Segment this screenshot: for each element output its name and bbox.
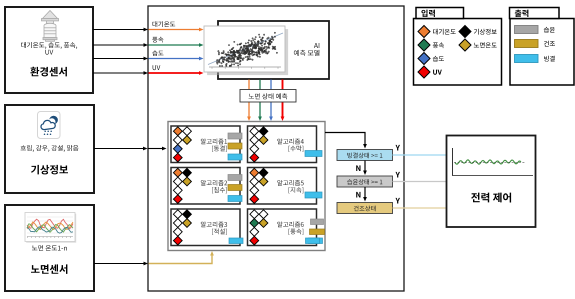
label 기상정보 conditions	[21, 145, 79, 152]
decision box 건조상태	[337, 203, 393, 214]
icon road-sensor temperature chart	[25, 213, 76, 243]
wire Y3 to power control	[393, 207, 448, 209]
wire env-sensor output 3 (습도) black segment	[93, 57, 148, 61]
label 환경센서 sensor list	[21, 42, 77, 55]
legend output item 건조	[515, 40, 556, 48]
wire Y1 to power control	[393, 154, 448, 156]
wire 습도 colored segment into AI model	[149, 57, 204, 61]
label 환경센서 title	[30, 67, 67, 77]
legend item UV	[418, 66, 442, 78]
box 알고리즘3 [적설]	[171, 209, 243, 246]
legend output title tab	[510, 8, 560, 19]
wire algorithms to decision chain	[325, 133, 367, 149]
wire N1	[363, 161, 367, 176]
label N2	[356, 192, 360, 198]
label AI model	[294, 43, 320, 56]
wire env-sensor output 2 (풍속) black segment	[93, 43, 148, 47]
wire road-sensor gold elbow into algorithms	[149, 251, 214, 264]
wire weather-info to algorithm container	[94, 147, 167, 151]
decision box 습윤상태 >= 1	[337, 176, 393, 187]
box road state prediction 노면상태예측	[240, 90, 296, 103]
label 노면센서 title	[31, 264, 67, 274]
label Y3	[396, 198, 401, 204]
wire AI output 대기온도 descending	[247, 80, 251, 122]
label input 습도	[152, 50, 163, 56]
wire UV colored segment into AI model	[149, 71, 204, 75]
label Y1	[396, 145, 401, 151]
box 알고리즘4 [수막]	[248, 126, 323, 163]
box 알고리즘1 [동결]	[171, 126, 242, 163]
icon weather cloud-rain	[38, 112, 61, 139]
label 노면센서 signal	[32, 245, 67, 251]
wire 대기온도 colored segment into AI model	[149, 28, 204, 32]
legend item 습도	[418, 53, 444, 65]
wire AI output 풍속 descending	[258, 80, 262, 122]
box AI prediction model	[218, 21, 329, 79]
box 알고리즘5 [지속]	[248, 168, 323, 205]
wire road-sensor black segment	[94, 262, 148, 266]
wire env-sensor output 4 (UV) black segment	[93, 71, 148, 75]
wire N2	[363, 187, 367, 202]
legend item 풍속	[418, 39, 444, 51]
box power control 전력제어 with waveform	[447, 136, 536, 228]
legend item 기상정보	[459, 26, 497, 38]
box 알고리즘6 [풍속]	[248, 209, 325, 246]
legend item 대기온도	[418, 26, 456, 38]
label input UV	[153, 65, 161, 70]
label input 풍속	[152, 37, 163, 43]
legend item 노면온도	[459, 39, 497, 51]
label input 대기온도	[153, 21, 176, 27]
box weather-info 기상정보	[5, 105, 94, 193]
label N1	[356, 165, 360, 171]
image scatter plot training data	[204, 26, 288, 75]
box environment-sensor 환경센서	[5, 7, 93, 93]
legend output item 빙결	[515, 55, 555, 63]
wire Y2 to power control	[393, 181, 448, 183]
wire AI output 습도 descending	[269, 80, 273, 122]
label 기상정보 title	[31, 165, 68, 175]
box road-sensor 노면센서	[5, 205, 94, 291]
label 전력 제어 title	[471, 193, 511, 203]
legend input box	[414, 19, 502, 86]
legend output box	[510, 19, 574, 86]
legend input title tab	[416, 8, 464, 19]
wire 풍속 colored segment into AI model	[149, 43, 204, 47]
legend output item 습윤	[515, 26, 555, 34]
decision box 빙결상태 >= 1	[337, 150, 393, 161]
box algorithm container	[168, 122, 325, 251]
label Y2	[396, 172, 401, 178]
box main processing container	[148, 6, 404, 291]
icon environment-sensor tower	[42, 11, 59, 42]
box 알고리즘2 [침수]	[171, 168, 242, 205]
wire AI output UV descending	[281, 80, 285, 122]
wire env-sensor output 1 (대기온도) black segment	[93, 28, 148, 32]
